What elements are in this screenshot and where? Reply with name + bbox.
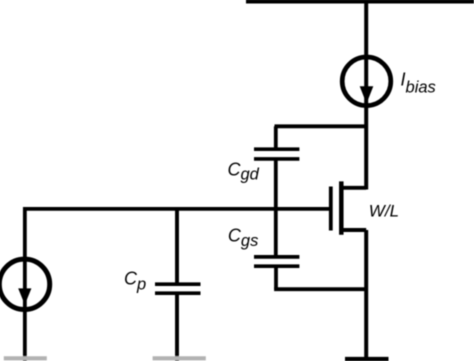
wire Cp to ground (175, 293, 179, 361)
svg-text:Cgs: Cgs (228, 226, 258, 251)
current source I2 arrow (18, 288, 31, 304)
capacitor C2 bottom plate (254, 264, 299, 268)
current source I2 circle (0, 259, 50, 309)
wire Cgs bottom stub (274, 266, 278, 289)
wire Cgd bottom to Cgs top (through gate node) (274, 159, 278, 257)
capacitor C3 bottom plate (155, 291, 201, 295)
ground right (345, 357, 389, 361)
capacitor C1 top plate (254, 147, 299, 151)
wire gate line (23, 207, 331, 211)
transistor M1 gate bar (329, 187, 333, 231)
wire gate node to Cp (175, 209, 179, 284)
ground middle (faded bar) (153, 356, 206, 360)
capacitor C3 top plate (155, 282, 201, 286)
wire source to ground (364, 230, 368, 361)
capacitor C2 top plate (254, 255, 299, 259)
svg-text:W/L: W/L (369, 201, 399, 220)
VDD supply rail (246, 0, 474, 4)
wire rail to drain (through Ibias) (364, 0, 368, 190)
transistor M1 channel bar (339, 181, 344, 234)
wire left branch down (23, 207, 27, 361)
current source I1 circle (342, 57, 391, 106)
capacitor C1 bottom plate (254, 157, 299, 161)
wire branch to Cgd top (274, 126, 278, 149)
svg-text:Cp: Cp (124, 268, 146, 293)
wire Cgs bottom to source node (274, 287, 366, 291)
current source I1 arrow (360, 86, 374, 103)
svg-text:Cgd: Cgd (228, 159, 260, 183)
wire drain node to Cgd branch (275, 124, 367, 128)
ground left (faded bar) (4, 356, 47, 360)
transistor M1 source lead (341, 228, 366, 232)
svg-text:Ibias: Ibias (401, 70, 436, 97)
transistor M1 drain lead (341, 186, 366, 190)
